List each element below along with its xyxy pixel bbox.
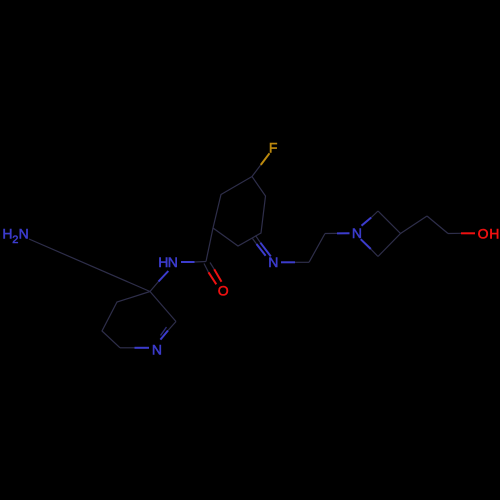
wire CH2 to azetidine N dim half <box>325 232 337 234</box>
wire amide C up to ring R5 <box>206 228 213 262</box>
wire H2N chain to pyridine C3 <box>29 239 150 292</box>
pyridine N left bond dim half <box>120 347 135 349</box>
F bond gold half <box>261 153 270 165</box>
pyridine N=C2 dim half <box>168 322 176 331</box>
atom label H2N <box>2 225 28 245</box>
azetidine ring N bottom bond <box>361 239 371 249</box>
C=N double bond blue halves <box>257 243 271 257</box>
pyridine ring bottom-left dim bonds <box>102 292 150 348</box>
wire HN to C3 dim half <box>150 282 159 292</box>
wire center N to CH2 blue half <box>281 261 295 263</box>
svg-text:N: N <box>19 225 29 241</box>
azetidine ring right bonds <box>378 211 401 257</box>
C=N double bond to center N: dim tails <box>253 236 261 245</box>
benzene ring (center, bearing F) <box>213 177 266 247</box>
wire CH2 to CH2 <box>427 216 448 234</box>
svg-text:H: H <box>489 226 499 242</box>
svg-text:F: F <box>269 140 278 156</box>
wire HN to C3 blue half <box>159 271 169 282</box>
svg-text:N: N <box>152 342 162 358</box>
azetidine ring N top bond <box>362 218 372 226</box>
atom label OH <box>478 226 500 242</box>
wire CH2 to OH dim half <box>448 232 461 234</box>
svg-text:H: H <box>2 225 12 241</box>
svg-text:N: N <box>168 254 178 270</box>
wire center N to CH2 dim half <box>295 261 309 263</box>
capacitor-like C=O double bond dim tails <box>204 263 214 273</box>
pyridine N left bond blue half <box>135 347 150 349</box>
wire CH2-CH2 <box>309 234 325 263</box>
svg-text:2: 2 <box>12 234 18 246</box>
wire CH2 to azetidine N blue half <box>337 232 350 234</box>
F bond dim half <box>252 165 261 177</box>
wire HN to amide C dim half <box>195 261 207 264</box>
svg-text:O: O <box>218 283 229 299</box>
wire azetidine C3 to CH2 <box>401 216 428 234</box>
pyridine N=C2 double bond blue half <box>160 331 168 340</box>
svg-text:N: N <box>352 225 362 241</box>
wire CH2 to OH red half <box>461 232 475 234</box>
svg-text:N: N <box>268 254 278 270</box>
svg-text:O: O <box>478 226 489 242</box>
wire HN to amide C blue half <box>181 261 195 263</box>
C=O double bond red halves <box>209 269 222 284</box>
atom label HN (amide) <box>158 254 178 270</box>
